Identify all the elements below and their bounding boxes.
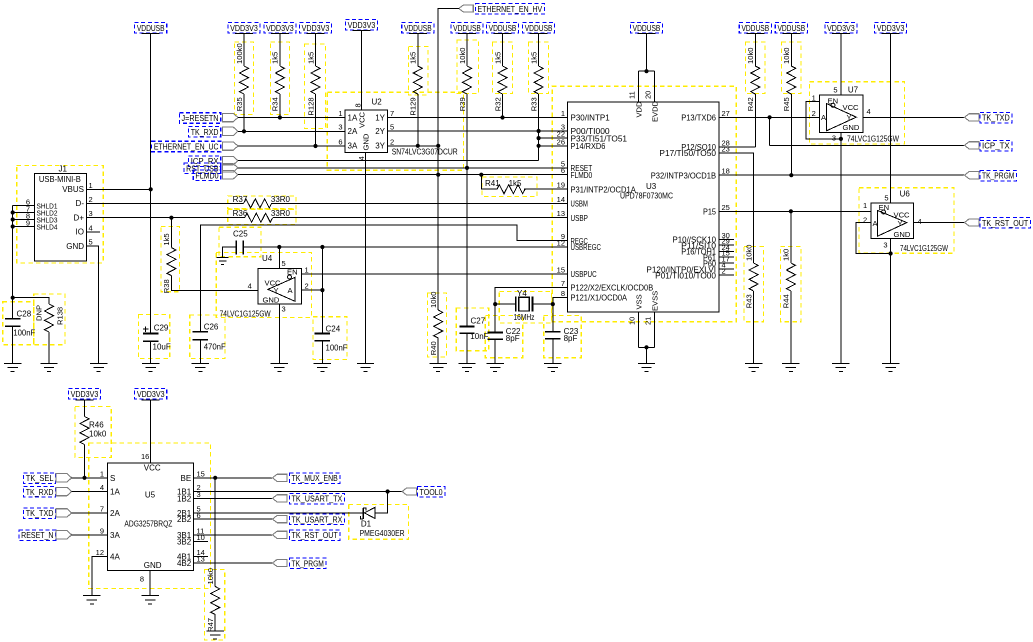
wire ETHERNET_EN_UC to U2 3A	[238, 145, 345, 147]
svg-text:16: 16	[141, 452, 149, 461]
mux U5 ADG3257BRQZ	[108, 463, 194, 571]
node TXD branch	[768, 115, 772, 119]
svg-text:9: 9	[100, 526, 104, 535]
svg-text:3: 3	[832, 133, 836, 142]
svg-text:2B2: 2B2	[177, 515, 192, 524]
highlight box R41	[482, 177, 537, 197]
wire U5 VCC	[150, 400, 152, 463]
wire U2 VCC	[361, 31, 363, 111]
wire U4 EN (USBPUC) to U3	[302, 273, 568, 275]
highlight box C24	[313, 317, 347, 360]
svg-text:USBM: USBM	[571, 200, 589, 209]
wire TK_SEL	[72, 477, 108, 479]
svg-text:4A: 4A	[110, 553, 120, 562]
capacitor C23 8pF	[545, 332, 560, 339]
wire ICP_TX branch	[770, 117, 965, 145]
svg-text:1k5: 1k5	[509, 179, 522, 188]
svg-text:1: 1	[100, 469, 104, 478]
capacitor C28 100nF	[5, 319, 20, 326]
resistor R38 1k5	[170, 218, 172, 248]
resistor R45 10k0	[790, 34, 792, 67]
wire P121 to crystal	[553, 297, 568, 331]
svg-text:1Y: 1Y	[375, 113, 385, 122]
svg-text:100k0: 100k0	[235, 43, 244, 64]
node R39-RESET	[465, 166, 469, 170]
svg-text:VDDUSB: VDDUSB	[525, 24, 553, 33]
highlight box R38	[161, 227, 180, 292]
svg-text:10k0: 10k0	[782, 48, 791, 64]
node R32-P30	[500, 115, 504, 119]
svg-text:21: 21	[644, 317, 653, 325]
svg-text:USBPUC: USBPUC	[571, 270, 597, 279]
node EN_HV-3Y	[436, 144, 440, 148]
capacitor C25	[236, 240, 243, 254]
svg-text:18: 18	[722, 167, 730, 176]
svg-text:TK_TXD: TK_TXD	[982, 114, 1010, 123]
svg-text:TK_PRGM: TK_PRGM	[982, 172, 1015, 181]
svg-text:19: 19	[557, 181, 565, 190]
wire J1 GND to ground	[86, 246, 98, 363]
svg-text:TK_USART_TX: TK_USART_TX	[292, 495, 343, 504]
svg-text:TK_MUX_ENB: TK_MUX_ENB	[292, 474, 338, 483]
svg-text:SHLD3: SHLD3	[37, 217, 58, 224]
svg-text:6: 6	[197, 511, 201, 520]
ground C23	[544, 364, 561, 372]
svg-text:R40: R40	[429, 341, 438, 355]
mcu U3 UPD78F0730MC	[568, 102, 720, 312]
svg-text:10k0: 10k0	[206, 568, 215, 584]
wire U4 A to REGC rail	[302, 289, 323, 291]
wire U3 right stubs	[719, 239, 734, 275]
svg-text:1k5: 1k5	[306, 52, 315, 64]
svg-text:2: 2	[722, 267, 726, 276]
highlight box U6	[859, 188, 954, 253]
svg-text:EN: EN	[828, 96, 839, 105]
wire RESET_N	[72, 534, 108, 536]
svg-text:VDD3V3: VDD3V3	[137, 390, 165, 399]
svg-text:R46: R46	[89, 420, 104, 429]
ground C24	[314, 364, 331, 372]
svg-text:1A: 1A	[348, 113, 358, 122]
net TOOL0	[402, 488, 416, 495]
svg-text:3A: 3A	[110, 531, 120, 540]
svg-text:FLMD0: FLMD0	[571, 171, 593, 180]
svg-text:2: 2	[305, 282, 309, 291]
connector J1 USB-MINI-B	[34, 173, 86, 261]
svg-text:R35: R35	[235, 97, 244, 111]
ground U5 4A	[83, 596, 100, 604]
svg-text:100nF: 100nF	[13, 329, 35, 338]
highlight box C23	[544, 316, 582, 358]
resistor R39 10k0	[466, 34, 468, 67]
wire shield pins tie	[13, 206, 35, 319]
svg-text:Y: Y	[274, 286, 279, 295]
highlight box R36	[228, 209, 296, 224]
svg-text:EN: EN	[287, 267, 298, 276]
wire U7 Y to TK_TXD	[863, 116, 964, 118]
svg-text:TK_RST_OUT: TK_RST_OUT	[292, 531, 338, 540]
wire P32 to TK_PRGM	[719, 174, 965, 176]
svg-text:USB-MINI-B: USB-MINI-B	[39, 175, 81, 184]
ground C29	[142, 364, 159, 372]
resistor R129 1k5	[417, 34, 419, 67]
highlight box R32	[493, 42, 513, 94]
wire U6 GND	[890, 238, 892, 363]
buffer U6 74LVC1G125GW	[871, 203, 913, 238]
svg-text:5: 5	[884, 193, 888, 202]
svg-text:Y4: Y4	[517, 289, 527, 298]
ground U2	[357, 364, 374, 372]
svg-text:7: 7	[390, 109, 394, 118]
highlight box R47	[205, 569, 225, 640]
node U7 EN-GND	[839, 137, 843, 141]
wire USBREGC rail	[243, 246, 567, 248]
node BE-R47	[213, 476, 217, 480]
wire 2B2 to TK_USART_RX	[194, 518, 273, 520]
svg-text:1k5: 1k5	[271, 52, 280, 64]
resistor R40 10k0	[434, 310, 443, 338]
wire U7 GND	[840, 132, 842, 363]
svg-text:FLMD0: FLMD0	[195, 171, 219, 180]
svg-text:1k5: 1k5	[529, 52, 538, 64]
highlight box C26	[190, 315, 225, 358]
svg-text:5: 5	[833, 86, 837, 95]
svg-text:4: 4	[248, 282, 252, 291]
svg-text:33R0: 33R0	[271, 195, 291, 204]
svg-text:4: 4	[100, 483, 104, 492]
wire U2 3Y	[388, 145, 439, 147]
svg-text:GND: GND	[843, 123, 860, 132]
svg-text:D-: D-	[76, 199, 85, 208]
svg-text:33R0: 33R0	[271, 209, 291, 218]
capacitor C22 8pF	[488, 333, 503, 340]
wire U5 4A tie to ground	[92, 557, 108, 596]
wire P12/SO10 to R42	[719, 146, 755, 148]
node shield junctions	[11, 210, 15, 214]
svg-text:3: 3	[338, 123, 342, 132]
svg-text:GND: GND	[361, 133, 370, 150]
svg-text:6: 6	[561, 166, 565, 175]
svg-text:1k5: 1k5	[493, 52, 502, 64]
wire crystal left	[495, 303, 516, 305]
highlight box J1	[17, 166, 104, 263]
svg-text:VDDUSB: VDDUSB	[489, 24, 517, 33]
svg-text:3B2: 3B2	[177, 537, 192, 546]
highlight box Y4	[499, 292, 551, 323]
wire P13/TXD6 to U7 A	[719, 116, 820, 118]
svg-text:10k0: 10k0	[458, 48, 467, 64]
highlight box D1	[349, 504, 409, 539]
svg-text:Y: Y	[847, 113, 852, 122]
wire U2 2Y to U3 P00	[388, 130, 568, 132]
node VBUS-VDDUSB junction	[149, 187, 153, 191]
node C25 rail - C24	[320, 245, 324, 249]
wire shield to R138	[13, 298, 49, 304]
node U6 A-GND	[889, 251, 893, 255]
svg-text:C28: C28	[17, 309, 32, 318]
svg-text:5: 5	[89, 238, 93, 247]
buffer U4 74LVC1G125GW	[258, 269, 302, 304]
wire VBUS to VDDUSB	[86, 188, 150, 190]
highlight box C28	[3, 302, 34, 345]
svg-text:Y: Y	[898, 219, 903, 228]
resistor R47 10k0	[214, 478, 216, 587]
highlight box R35	[235, 42, 254, 115]
svg-text:GND: GND	[894, 230, 911, 239]
svg-text:VBUS: VBUS	[62, 185, 84, 194]
svg-text:2A: 2A	[110, 509, 120, 518]
net TK_MUX_ENB	[273, 474, 287, 481]
svg-text:SHLD4: SHLD4	[37, 224, 58, 231]
svg-text:4: 4	[918, 217, 922, 226]
node R38-D+	[169, 216, 173, 220]
svg-text:R36: R36	[233, 209, 248, 218]
wire U6 A tie	[856, 223, 891, 254]
svg-text:VCC: VCC	[843, 103, 860, 112]
svg-text:R47: R47	[206, 618, 215, 632]
svg-text:ETHERNET_EN_UC: ETHERNET_EN_UC	[154, 143, 219, 152]
highlight box R39	[457, 40, 479, 94]
capacitor C27 10nF	[459, 326, 474, 333]
wire VDDUSB rail down to C29	[150, 34, 152, 334]
net ETHERNET_EN_HV	[459, 5, 473, 12]
svg-text:SHLD1: SHLD1	[37, 203, 58, 210]
ground C28	[4, 364, 21, 372]
ground U4	[271, 364, 288, 372]
highlight box U4	[216, 252, 311, 317]
svg-text:TK_RXD: TK_RXD	[191, 128, 219, 137]
svg-text:1k0: 1k0	[782, 249, 791, 261]
svg-text:4B2: 4B2	[177, 559, 192, 568]
svg-text:1B2: 1B2	[177, 494, 192, 503]
svg-text:10k0: 10k0	[746, 48, 755, 64]
svg-text:U4: U4	[262, 254, 273, 263]
svg-text:VDD3V3: VDD3V3	[230, 24, 258, 33]
svg-text:1: 1	[338, 109, 342, 118]
wire TK_TXD bottom	[72, 512, 108, 514]
wire U6 Y to TK_RST_OUT	[913, 222, 964, 224]
wire 3B1 to TK_RST_OUT	[194, 534, 273, 536]
svg-text:TK_SEL: TK_SEL	[26, 474, 54, 483]
node R128-ETHERNET_EN_UC	[313, 144, 317, 148]
wire FLMD0 to U3 FLMD0	[238, 174, 568, 176]
svg-text:R43: R43	[744, 294, 753, 308]
net TK_TXD	[965, 114, 979, 121]
ground U3 VSS	[638, 364, 655, 372]
capacitor C29 10uF	[143, 334, 158, 342]
wire U7 VCC	[840, 34, 842, 96]
svg-text:23: 23	[722, 144, 730, 153]
wire U6 VCC	[890, 34, 892, 204]
svg-text:3A: 3A	[348, 142, 358, 151]
svg-text:C26: C26	[204, 323, 219, 332]
svg-text:20: 20	[644, 91, 653, 99]
svg-text:USBP: USBP	[571, 214, 588, 223]
svg-text:GND: GND	[66, 242, 84, 251]
svg-text:1A: 1A	[110, 488, 120, 497]
wire U3 VSS EVSS bracket	[639, 312, 655, 364]
node VDD junction	[644, 69, 648, 73]
node VSS junction	[644, 345, 648, 349]
node R46-TK_SEL	[82, 476, 86, 480]
svg-text:R38: R38	[162, 279, 171, 293]
svg-text:SN74LVC3G07DCUR: SN74LVC3G07DCUR	[392, 148, 458, 157]
resistor R41 1k5	[481, 175, 497, 190]
resistor R128 1k5	[315, 34, 317, 67]
wire 1B1 to TOOL0	[194, 491, 403, 493]
resistor R138 DNP	[45, 304, 54, 332]
svg-text:VDDUSB: VDDUSB	[741, 24, 769, 33]
svg-text:1: 1	[561, 109, 565, 118]
svg-text:26: 26	[557, 137, 565, 146]
resistor R44 1k0	[790, 211, 792, 263]
svg-text:R129: R129	[409, 97, 418, 115]
node C25 rail - U4 VCC	[277, 245, 281, 249]
svg-text:1k5: 1k5	[162, 233, 171, 245]
buffer U2 SN74LVC3G07DCUR	[345, 110, 388, 152]
net TK_RST_OUT	[965, 219, 979, 226]
resistor R37 33R0	[86, 202, 243, 204]
node C24-U4 A	[320, 288, 324, 292]
svg-text:P13/TXD6: P13/TXD6	[681, 114, 716, 123]
svg-text:J=RESETN: J=RESETN	[182, 114, 219, 123]
svg-text:P121/X1/OCD0A: P121/X1/OCD0A	[571, 294, 628, 303]
svg-text:TK_TXD: TK_TXD	[26, 509, 54, 518]
svg-text:R45: R45	[782, 97, 791, 111]
svg-text:10: 10	[628, 317, 637, 325]
svg-text:ADG3257BRQZ: ADG3257BRQZ	[124, 520, 172, 529]
svg-text:VDD3V3: VDD3V3	[71, 390, 99, 399]
svg-text:16MHz: 16MHz	[514, 313, 535, 322]
svg-text:R128: R128	[306, 97, 315, 115]
wire P15 to U6 EN	[719, 210, 871, 212]
svg-text:U2: U2	[372, 98, 383, 107]
svg-text:D+: D+	[74, 214, 85, 223]
wire U4 GND	[278, 304, 280, 364]
wire J1 IO stub	[86, 231, 100, 233]
highlight box R45	[782, 42, 802, 94]
svg-text:3: 3	[282, 305, 286, 314]
svg-text:R44: R44	[782, 294, 791, 308]
wire U7 EN tie	[806, 101, 841, 138]
resistor R32 1k5	[502, 34, 504, 67]
highlight box R46	[75, 407, 111, 458]
highlight box R37	[228, 196, 296, 209]
highlight box R138	[34, 294, 65, 345]
svg-text:1: 1	[863, 201, 867, 210]
svg-text:D1: D1	[361, 520, 372, 529]
svg-text:P122/X2/EXCLK/OCD0B: P122/X2/EXCLK/OCD0B	[571, 284, 654, 293]
highlight box C25	[219, 227, 261, 257]
svg-text:U3: U3	[646, 182, 657, 191]
highlight box U2	[327, 92, 463, 170]
highlight box U5	[89, 443, 211, 589]
wire U4 VCC	[278, 247, 280, 269]
svg-text:SHLD2: SHLD2	[37, 210, 58, 217]
svg-text:C29: C29	[154, 324, 169, 333]
svg-text:P17/TI50/TO50: P17/TI50/TO50	[659, 149, 716, 158]
highlight box R42	[746, 42, 766, 94]
svg-text:R41: R41	[485, 179, 500, 188]
ground C27	[458, 364, 475, 372]
svg-text:U7: U7	[848, 86, 859, 95]
svg-text:S: S	[110, 474, 115, 483]
ground R47	[207, 631, 224, 639]
highlight box R43	[744, 246, 764, 321]
svg-text:P31/INTP2/OCD1A: P31/INTP2/OCD1A	[571, 185, 637, 194]
svg-text:VCC: VCC	[358, 111, 367, 128]
wire BE to TK_MUX_ENB	[194, 477, 273, 479]
svg-text:VDD3V3: VDD3V3	[348, 21, 376, 30]
highlight box R34	[271, 42, 290, 115]
svg-text:VCC: VCC	[144, 464, 161, 473]
svg-text:R32: R32	[493, 97, 502, 111]
node R44-P15	[789, 209, 793, 213]
svg-text:RESET_N: RESET_N	[21, 531, 54, 540]
svg-text:10uF: 10uF	[153, 343, 171, 352]
wire U3 VDD EVDD bracket	[639, 34, 655, 103]
node TOOL0-D1	[386, 489, 390, 493]
svg-text:2: 2	[390, 137, 394, 146]
svg-text:VDD3V3: VDD3V3	[266, 24, 294, 33]
svg-text:C24: C24	[326, 325, 341, 334]
svg-text:ICP_TX: ICP_TX	[982, 142, 1010, 151]
svg-text:14: 14	[557, 195, 565, 204]
svg-text:8pF: 8pF	[506, 334, 520, 343]
svg-text:3: 3	[89, 209, 93, 218]
capacitor C26 470nF	[193, 332, 208, 340]
svg-text:74LVC1G125GW: 74LVC1G125GW	[847, 135, 899, 144]
wire REGC to C26	[200, 225, 567, 332]
svg-text:R39: R39	[458, 97, 467, 111]
highlight box U3	[552, 86, 736, 322]
svg-text:100nF: 100nF	[326, 343, 348, 352]
svg-text:C25: C25	[233, 230, 248, 239]
wire 2B1 to D1	[194, 512, 364, 514]
svg-text:3: 3	[883, 241, 887, 250]
svg-text:VDD: VDD	[635, 101, 644, 118]
ground U6	[882, 364, 899, 372]
highlight box R40	[428, 293, 447, 357]
svg-text:EVSS: EVSS	[651, 291, 660, 311]
svg-text:7: 7	[100, 504, 104, 513]
node crystal left	[493, 302, 497, 306]
node R129-3Y	[416, 144, 420, 148]
highlight box R129	[409, 47, 429, 96]
svg-text:P32/INTP3/OCD1B: P32/INTP3/OCD1B	[651, 171, 716, 180]
svg-text:P14/RXD6: P14/RXD6	[571, 142, 606, 151]
svg-text:74LVC1G125GW: 74LVC1G125GW	[220, 309, 271, 318]
net TK_USART_RX	[273, 516, 287, 523]
svg-text:7: 7	[561, 279, 565, 288]
svg-text:8pF: 8pF	[564, 334, 578, 343]
svg-text:VDD3V3: VDD3V3	[827, 24, 855, 33]
node EN_HV-FLMD0	[436, 173, 440, 177]
wire P17 to R43	[719, 153, 754, 263]
ground R40	[430, 364, 447, 372]
svg-text:5: 5	[282, 259, 286, 268]
highlight box U7	[810, 82, 905, 144]
wire U2 GND to ground	[365, 152, 367, 363]
ground U5	[142, 596, 159, 604]
highlight box C22	[485, 316, 523, 358]
svg-text:VDDUSB: VDDUSB	[777, 24, 805, 33]
net ICP_TX	[965, 142, 979, 149]
wire 1B2 to TK_USART_TX	[194, 497, 273, 499]
node R35-TK_RXD	[242, 129, 246, 133]
node R45-TK_PRGM	[789, 173, 793, 177]
svg-text:8: 8	[140, 575, 144, 584]
